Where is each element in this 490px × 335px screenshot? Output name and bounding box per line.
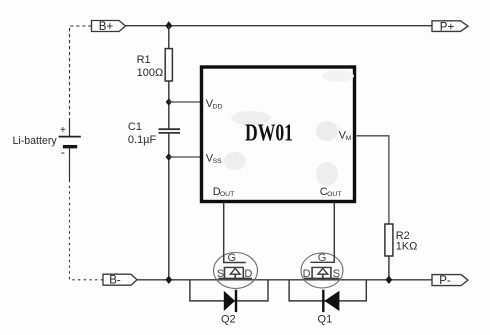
svg-text:B-: B- — [109, 275, 121, 287]
capacitor C1 bottom plate — [159, 132, 181, 134]
wire R1 to VDD node — [168, 81, 170, 129]
wire bottom rail B- to P- — [137, 279, 432, 281]
node junction battery branch on bottom rail — [165, 276, 172, 284]
transistor Q1 body circle — [301, 253, 343, 288]
svg-text:DW01: DW01 — [245, 120, 293, 146]
svg-text:0.1µF: 0.1µF — [128, 134, 157, 146]
svg-text:D: D — [244, 268, 252, 280]
battery BT1 positive plate — [59, 136, 81, 138]
svg-text:B+: B+ — [99, 21, 114, 33]
pin label VSS — [206, 153, 222, 166]
svg-text:-: - — [61, 145, 65, 159]
svg-text:Q1: Q1 — [318, 314, 333, 326]
watermark smudge 6 — [322, 70, 354, 82]
label Q1 source S — [333, 268, 340, 280]
transistor Q1 channel structure — [304, 267, 340, 278]
svg-text:M: M — [346, 135, 352, 142]
wire dashed battery branch to B- — [70, 180, 104, 280]
wire VDD pin — [169, 101, 201, 103]
label Q2 source S — [217, 268, 224, 280]
svg-text:G: G — [318, 252, 327, 264]
label R1 — [137, 54, 151, 66]
watermark smudge 4 — [224, 152, 246, 170]
watermark smudge 5 — [316, 162, 338, 186]
node junction R2 on bottom rail — [386, 276, 393, 284]
wire VM to R2 — [357, 136, 389, 224]
label C1 — [128, 121, 142, 133]
svg-text:100Ω: 100Ω — [137, 67, 164, 79]
svg-text:P+: P+ — [440, 21, 455, 33]
wire C1 to VSS node and down to B- rail — [168, 133, 170, 280]
label Q1 drain D — [303, 268, 311, 280]
wire Q1 body diode loop — [289, 280, 366, 301]
pin label COUT — [320, 186, 342, 198]
wire VSS pin — [169, 156, 201, 158]
label Q2 drain D — [244, 268, 252, 280]
label Q2 — [221, 314, 236, 326]
label 0.1uF — [128, 134, 157, 146]
label Li-battery — [13, 135, 58, 147]
watermark smudge 3 — [316, 121, 338, 141]
op-amp U1 DW01 body — [202, 67, 355, 202]
label Q1 — [318, 314, 333, 326]
pin label VM — [339, 130, 352, 142]
label DW01 — [245, 120, 293, 146]
tag B+ — [92, 21, 126, 34]
label R2 — [396, 230, 410, 242]
svg-text:1KΩ: 1KΩ — [396, 240, 418, 252]
svg-text:G: G — [228, 252, 237, 264]
diode Q2 body diode — [224, 290, 236, 312]
watermark smudge 1 — [229, 111, 273, 125]
wire battery bottom lead — [69, 149, 71, 181]
wire Q2 body diode loop — [190, 280, 268, 301]
watermark smudge 2 — [231, 111, 271, 125]
label 100 ohm — [137, 67, 164, 79]
resistor R2 — [385, 224, 393, 256]
svg-text:R1: R1 — [137, 54, 151, 66]
wire COUT pin to Q1 gate — [333, 202, 335, 262]
wire R2 to bottom rail — [388, 256, 390, 280]
transistor Q1 gate bar — [310, 255, 334, 262]
node junction VSS — [166, 153, 172, 161]
svg-text:Li-battery: Li-battery — [13, 135, 58, 147]
svg-text:+: + — [60, 125, 66, 136]
pin label VDD — [206, 98, 223, 111]
pin label DOUT — [213, 186, 234, 198]
svg-text:S: S — [217, 268, 224, 280]
svg-text:D: D — [303, 268, 311, 280]
svg-text:C1: C1 — [128, 121, 142, 133]
wire DOUT pin to Q2 gate — [223, 202, 225, 263]
resistor R1 — [165, 49, 172, 81]
tag B- — [103, 274, 137, 287]
label Q2 gate G — [228, 252, 237, 264]
transistor Q2 body circle — [214, 253, 258, 289]
svg-text:Q2: Q2 — [221, 314, 236, 326]
transistor Q2 gate bar — [224, 255, 246, 263]
capacitor C1 top plate — [159, 128, 181, 130]
svg-text:P-: P- — [439, 275, 451, 287]
wire top rail B+ to P+ — [126, 25, 433, 27]
svg-text:OUT: OUT — [220, 191, 234, 198]
node junction VDD — [166, 98, 172, 106]
svg-text:OUT: OUT — [327, 191, 341, 198]
diode Q1 body diode — [323, 290, 339, 312]
svg-text:SS: SS — [213, 158, 223, 165]
svg-text:DD: DD — [213, 104, 223, 111]
label Q1 gate G — [318, 252, 327, 264]
node junction top of R1 branch — [165, 21, 172, 30]
label battery minus — [61, 145, 65, 159]
wire dashed battery branch from B+ — [70, 26, 92, 120]
label 1K ohm — [396, 240, 418, 252]
transistor Q2 channel structure — [219, 267, 253, 278]
wire battery top lead — [69, 120, 71, 136]
svg-text:S: S — [333, 268, 340, 280]
battery BT1 negative plate — [63, 145, 77, 148]
label battery plus — [60, 125, 66, 136]
wire R1 branch upper — [168, 26, 170, 49]
tag P+ — [432, 21, 468, 34]
tag P- — [432, 275, 468, 288]
